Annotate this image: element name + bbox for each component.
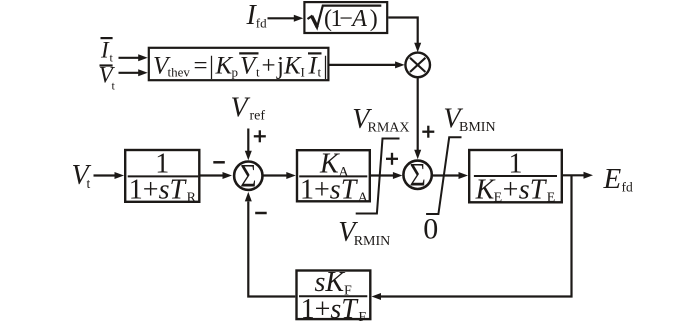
svg-text:fd: fd xyxy=(622,180,633,195)
svg-text:ref: ref xyxy=(250,109,266,124)
sign minus at summer 1 left input xyxy=(213,161,225,164)
sign plus at V_ref input xyxy=(254,130,266,142)
svg-text:1+: 1+ xyxy=(129,174,159,205)
svg-text:RMIN: RMIN xyxy=(354,234,391,249)
block Vthev xyxy=(149,48,329,80)
svg-text:I: I xyxy=(100,38,110,63)
svg-text:V: V xyxy=(231,93,251,124)
svg-text:1+: 1+ xyxy=(301,294,331,325)
multiplier X xyxy=(405,53,430,78)
svg-text:): ) xyxy=(370,6,378,32)
node I_fd label xyxy=(246,0,268,31)
svg-text:A: A xyxy=(350,6,367,32)
block 1/(1+sTR) xyxy=(125,150,199,202)
svg-text:1+: 1+ xyxy=(300,174,330,205)
svg-text:K: K xyxy=(283,52,302,79)
svg-text:Σ: Σ xyxy=(240,157,256,194)
limiter VBMIN 0 xyxy=(426,137,461,214)
block sKF/(1+sTF) xyxy=(297,271,371,320)
svg-text:fd: fd xyxy=(256,16,267,31)
sign plus at summer 2 top input xyxy=(422,126,434,138)
svg-text:sT: sT xyxy=(330,294,359,325)
node V_RMIN label xyxy=(338,217,390,249)
block KA/(1+sTA) xyxy=(297,150,370,201)
svg-text:t: t xyxy=(87,176,91,191)
wire KA block to summer 2 xyxy=(371,174,394,176)
wire Vthev to multiplier xyxy=(330,64,397,66)
wire V_t to TR block xyxy=(94,174,116,176)
svg-text:t: t xyxy=(318,65,322,80)
svg-text:+: + xyxy=(503,174,519,205)
wire summer 1 to KA block xyxy=(264,174,288,176)
wire multiplier to summer 2 xyxy=(417,78,419,151)
svg-text:+: + xyxy=(262,52,276,79)
svg-text:BMIN: BMIN xyxy=(459,120,496,135)
wire sqrt block to multiplier xyxy=(388,18,417,44)
node V_ref label xyxy=(231,93,266,124)
wire V_ref to summer 1 xyxy=(247,129,249,152)
svg-text:t: t xyxy=(112,79,116,93)
svg-text:E: E xyxy=(547,191,556,206)
svg-text:A: A xyxy=(358,191,369,206)
svg-text:K: K xyxy=(475,174,496,205)
svg-text:thev: thev xyxy=(168,65,191,80)
wire I_fd to sqrt block xyxy=(268,17,296,19)
svg-text:F: F xyxy=(358,310,366,325)
svg-text:sT: sT xyxy=(330,174,359,205)
block sqrt(1-A) xyxy=(304,2,387,33)
svg-text:|: | xyxy=(323,52,328,79)
sign plus at summer 2 left input xyxy=(386,153,398,165)
svg-text:=: = xyxy=(194,52,208,79)
node E_fd label xyxy=(603,163,633,195)
svg-text:−: − xyxy=(339,6,353,32)
wire Vtbar to Vthev block xyxy=(119,72,140,74)
svg-text:Σ: Σ xyxy=(409,157,425,194)
svg-text:sT: sT xyxy=(519,174,548,205)
svg-text:R: R xyxy=(187,191,197,206)
svg-text:|: | xyxy=(209,52,214,79)
wire Itbar to Vthev block xyxy=(119,57,140,59)
wire output branch to feedback block xyxy=(381,175,572,296)
svg-text:p: p xyxy=(232,65,239,80)
wire KE block to E_fd output xyxy=(563,174,584,176)
limiter VRMAX VRMIN xyxy=(356,139,400,214)
svg-text:t: t xyxy=(256,65,260,80)
node Itbar label xyxy=(100,38,114,65)
node V_RMAX label xyxy=(352,104,409,136)
svg-text:E: E xyxy=(494,191,503,206)
svg-text:E: E xyxy=(603,163,622,195)
node V_BMIN label xyxy=(443,103,495,135)
summer 1 xyxy=(234,162,262,190)
wire feedback block to summer 1 xyxy=(248,202,295,297)
svg-text:RMAX: RMAX xyxy=(368,121,410,136)
node V_t label xyxy=(72,160,92,191)
sign minus at feedback input xyxy=(255,212,267,215)
wire summer 2 to KE block xyxy=(433,174,460,176)
block 1/(KE+sTE) xyxy=(469,150,562,202)
svg-text:I: I xyxy=(301,65,305,80)
svg-text:sT: sT xyxy=(159,174,188,205)
node Vtbar label xyxy=(99,63,116,93)
svg-text:j: j xyxy=(276,52,284,79)
summer 2 xyxy=(403,161,431,189)
wire TR block to summer 1 xyxy=(201,174,224,176)
svg-text:0: 0 xyxy=(423,213,438,246)
